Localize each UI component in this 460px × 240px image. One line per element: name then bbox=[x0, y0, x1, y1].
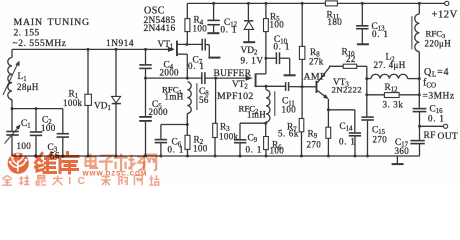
svg-text:1mH: 1mH bbox=[247, 110, 266, 120]
svg-text:100k: 100k bbox=[63, 98, 83, 108]
svg-text:220μH: 220μH bbox=[425, 38, 452, 48]
svg-text:VT1: VT1 bbox=[158, 40, 174, 51]
svg-text:1mH: 1mH bbox=[165, 92, 184, 102]
svg-text:360: 360 bbox=[395, 146, 410, 156]
svg-text:QL=4: QL=4 bbox=[424, 67, 449, 79]
svg-text:RF: RF bbox=[424, 131, 436, 141]
svg-text:BUFFER: BUFFER bbox=[214, 69, 252, 79]
svg-text:100: 100 bbox=[270, 146, 285, 156]
svg-text:fCO: fCO bbox=[423, 77, 436, 89]
svg-text:9. 1V: 9. 1V bbox=[241, 55, 264, 65]
svg-text:2. 155: 2. 155 bbox=[14, 28, 40, 39]
svg-text:MPF102: MPF102 bbox=[217, 91, 254, 102]
svg-text:1N914: 1N914 bbox=[106, 39, 134, 49]
svg-text:3. 3k: 3. 3k bbox=[383, 100, 404, 110]
svg-text:27. 4μH: 27. 4μH bbox=[374, 60, 406, 70]
svg-text:2000: 2000 bbox=[149, 107, 169, 117]
svg-text:0. 1: 0. 1 bbox=[372, 29, 389, 39]
svg-text:AMP: AMP bbox=[304, 71, 326, 82]
svg-text:27k: 27k bbox=[309, 57, 324, 67]
svg-text:OSC: OSC bbox=[144, 5, 165, 16]
svg-text:100: 100 bbox=[282, 105, 297, 115]
svg-text:TUNING: TUNING bbox=[48, 17, 90, 28]
svg-text:C1: C1 bbox=[21, 119, 31, 130]
svg-text:0. 1: 0. 1 bbox=[246, 144, 263, 154]
svg-text:100k: 100k bbox=[219, 131, 239, 141]
svg-text:0. 1: 0. 1 bbox=[168, 144, 185, 154]
svg-text:OUT: OUT bbox=[438, 132, 459, 142]
svg-text:5. 6k: 5. 6k bbox=[278, 128, 299, 138]
svg-text:0. 1: 0. 1 bbox=[188, 61, 205, 71]
svg-text:270: 270 bbox=[307, 139, 322, 149]
svg-text:100: 100 bbox=[270, 19, 285, 29]
svg-text:2N2222: 2N2222 bbox=[332, 85, 362, 95]
svg-text:22: 22 bbox=[346, 54, 356, 64]
svg-text:MAIN: MAIN bbox=[14, 17, 43, 28]
svg-text:0. 1: 0. 1 bbox=[339, 137, 356, 147]
svg-text:R9: R9 bbox=[308, 129, 318, 140]
svg-text:100: 100 bbox=[17, 141, 32, 151]
svg-text:C9: C9 bbox=[248, 133, 258, 144]
svg-text:270: 270 bbox=[373, 135, 388, 145]
svg-text:VT2: VT2 bbox=[232, 80, 248, 91]
svg-text:100: 100 bbox=[193, 143, 208, 153]
svg-text:R12: R12 bbox=[385, 83, 399, 94]
svg-text:0. 1: 0. 1 bbox=[221, 25, 238, 35]
svg-text:~2. 555MHz: ~2. 555MHz bbox=[13, 38, 67, 49]
svg-text:56: 56 bbox=[199, 95, 209, 105]
svg-text:100: 100 bbox=[193, 23, 208, 33]
svg-text:0. 1: 0. 1 bbox=[428, 114, 445, 124]
svg-text:WWW.DZSC.COM: WWW.DZSC.COM bbox=[83, 170, 148, 177]
svg-text:0. 1: 0. 1 bbox=[274, 42, 291, 52]
svg-text:100: 100 bbox=[41, 123, 56, 133]
svg-text:+12V: +12V bbox=[432, 10, 458, 21]
svg-text:2000: 2000 bbox=[160, 67, 180, 77]
svg-text:VD1: VD1 bbox=[94, 101, 111, 112]
svg-text:180: 180 bbox=[328, 17, 343, 27]
svg-text:28μH: 28μH bbox=[17, 82, 39, 92]
svg-text:I: I bbox=[68, 175, 71, 186]
svg-text:C14: C14 bbox=[340, 122, 354, 133]
svg-text:C: C bbox=[78, 175, 86, 186]
svg-text:=3MHz: =3MHz bbox=[423, 91, 455, 101]
svg-text:2N4416: 2N4416 bbox=[144, 24, 176, 34]
